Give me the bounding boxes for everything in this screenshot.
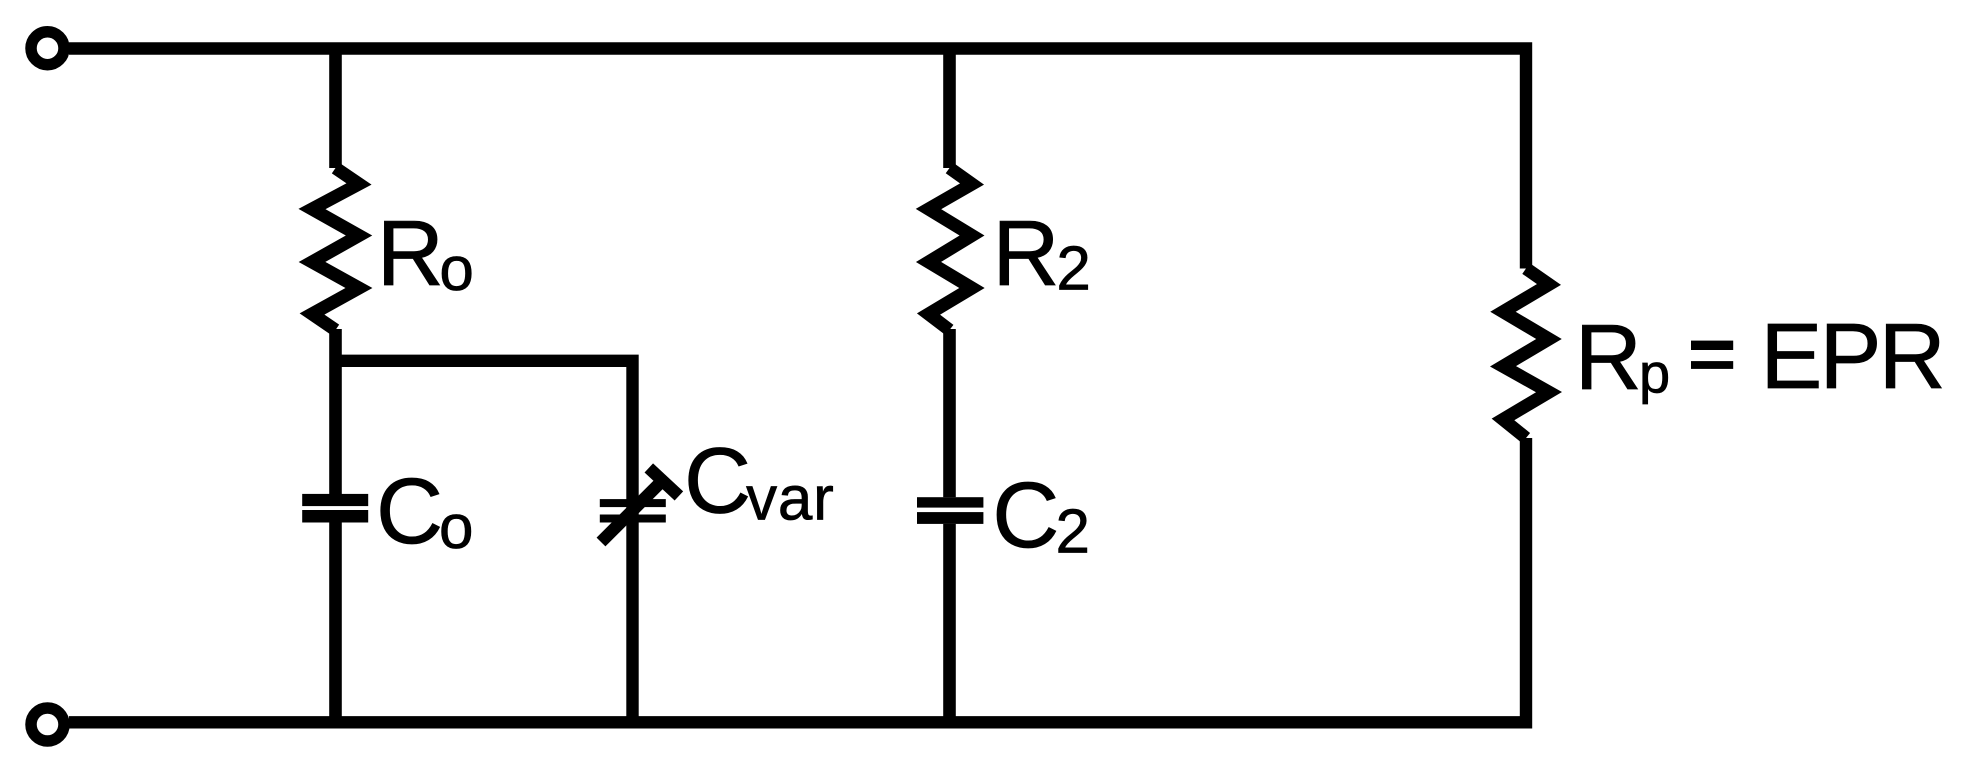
capacitor Co: [302, 494, 368, 506]
wire Ro to Co: [329, 329, 342, 495]
svg-text:p: p: [1639, 341, 1670, 404]
svg-text:EPR: EPR: [1760, 304, 1943, 408]
wire middle to Cvar: [330, 361, 633, 722]
Cvar arrow shaft: [601, 481, 662, 542]
wire C2 to bottom: [943, 524, 956, 722]
equals sign: [1691, 341, 1733, 350]
svg-text:C: C: [992, 463, 1059, 567]
svg-text:var: var: [746, 465, 835, 534]
svg-text:2: 2: [1056, 235, 1090, 304]
wire bottom rail: [69, 438, 1526, 722]
resistor Rp: [1503, 269, 1549, 439]
wire Co to bottom: [329, 523, 342, 723]
svg-text:C: C: [684, 429, 751, 533]
svg-text:o: o: [439, 493, 473, 562]
wire R2 to C2: [943, 329, 956, 497]
wire top rail: [69, 49, 1526, 269]
terminal bottom-left: [31, 708, 64, 741]
svg-text:o: o: [439, 235, 473, 304]
resistor R2: [929, 168, 973, 330]
svg-text:R: R: [992, 201, 1059, 305]
svg-text:R: R: [377, 201, 444, 305]
svg-text:C: C: [376, 459, 443, 563]
wire branch1 top: [329, 48, 342, 168]
capacitor C2: [917, 497, 983, 507]
resistor Ro: [312, 168, 359, 330]
svg-text:2: 2: [1056, 498, 1090, 567]
svg-text:R: R: [1575, 305, 1642, 409]
wire branch R2 top: [943, 48, 956, 168]
Cvar arrow barb: [649, 468, 679, 496]
terminal top-left: [31, 32, 64, 65]
capacitor Cvar plates: [600, 499, 666, 507]
